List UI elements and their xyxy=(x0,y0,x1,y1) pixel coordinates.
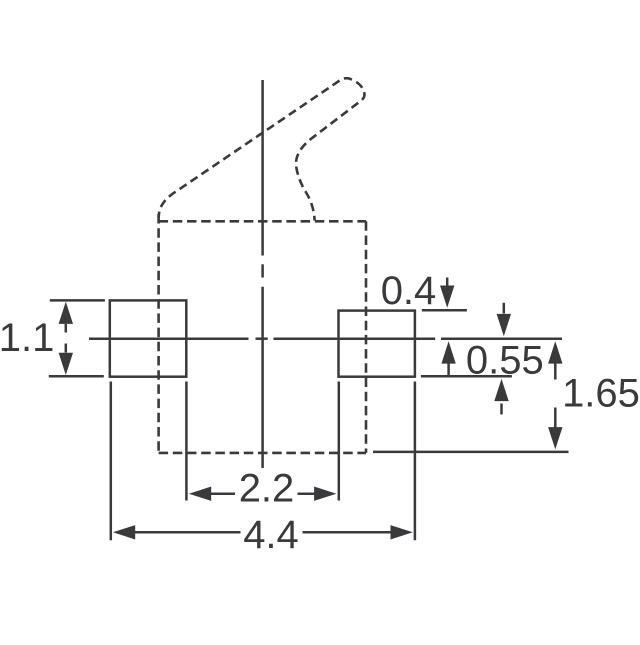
vertical centerline (dash-dot) xyxy=(261,80,264,256)
arrowhead 0.55 up (below pad-bottom line) xyxy=(494,379,508,401)
arrowhead 0.55 down (above datum line) xyxy=(497,314,511,336)
svg-text:4.4: 4.4 xyxy=(243,513,299,557)
svg-text:1.1: 1.1 xyxy=(0,316,54,360)
extension stub below left pad left edge xyxy=(110,382,113,541)
dimension line 1.1 arrows xyxy=(65,324,68,353)
extension line right pad top (0.4) xyxy=(422,309,467,312)
dimension line 0.4 upper arrow shaft xyxy=(446,278,449,288)
dimension line 0.4 lower arrow shaft xyxy=(447,363,450,377)
arrowhead 4.4 left xyxy=(113,525,135,539)
svg-text:0.4: 0.4 xyxy=(381,269,437,313)
dimension 2.2 line segments xyxy=(210,492,317,495)
arrowhead 1.1 down xyxy=(59,353,73,375)
extension line bottom-left (1.1 bottom) xyxy=(49,375,104,378)
svg-text:1.65: 1.65 xyxy=(562,372,640,416)
arrowhead 2.2 right xyxy=(314,487,336,501)
dimension 4.4 line segments xyxy=(135,531,392,534)
extension stub below right pad left edge xyxy=(338,382,341,501)
dimension 1.65 line segments xyxy=(554,363,557,428)
arrowhead 1.65 up xyxy=(548,341,562,363)
horizontal centerline through pads (dash-dot) xyxy=(89,337,249,340)
lever actuator (dashed outline) xyxy=(159,78,365,220)
extension line body bottom right (1.65) xyxy=(373,451,569,454)
left pad xyxy=(110,300,187,376)
svg-text:2.2: 2.2 xyxy=(239,467,295,511)
extension line pad mid right (0.4/0.55/1.65 datum) xyxy=(441,337,562,340)
dimension 0.55 upper arrow shaft xyxy=(503,303,506,314)
svg-text:0.55: 0.55 xyxy=(466,339,544,383)
arrowhead 0.4 down (above pad-top line) xyxy=(440,286,454,308)
dimension 0.55 lower arrow shaft xyxy=(500,404,503,415)
extension line top-left (1.1 top) xyxy=(50,299,105,302)
extension line right pad bottom (0.55) xyxy=(421,375,512,378)
right pad xyxy=(339,311,415,377)
arrowhead 0.4 up (below datum line) xyxy=(441,341,455,363)
arrowhead 1.1 up xyxy=(59,302,73,324)
arrowhead 2.2 left xyxy=(189,487,211,501)
component body outline (dashed rectangle) xyxy=(159,214,366,453)
arrowhead 1.65 down xyxy=(548,427,562,449)
extension stub below right pad right edge xyxy=(414,382,417,541)
arrowhead 4.4 right xyxy=(391,525,413,539)
extension stub below left pad right edge xyxy=(185,382,188,501)
